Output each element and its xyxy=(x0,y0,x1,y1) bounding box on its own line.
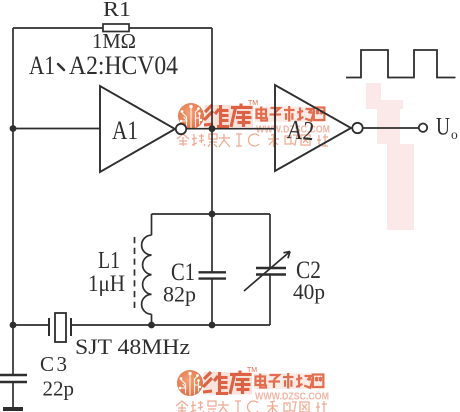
ground xyxy=(3,407,23,411)
wire C3 to ground xyxy=(12,382,14,407)
svg-text:1MΩ: 1MΩ xyxy=(92,29,136,53)
pink watermark band upper xyxy=(366,83,381,100)
svg-text:A1: A1 xyxy=(29,51,55,80)
label Uo xyxy=(436,114,458,143)
wire top rail xyxy=(13,27,212,29)
crystal SJT 48MHz xyxy=(13,313,71,342)
node junction right rail and A1 output xyxy=(209,125,216,132)
wire A1 input xyxy=(13,128,100,130)
svg-text:82p: 82p xyxy=(163,282,196,307)
terminal Uo xyxy=(419,124,427,132)
pink watermark band lower xyxy=(387,144,414,230)
capacitor C2 variable xyxy=(244,214,290,325)
watermark bottom xyxy=(176,367,329,412)
pink watermark band middle xyxy=(377,109,400,144)
resistor R1 xyxy=(103,24,129,32)
inverter gate A2 (HCV04) xyxy=(275,85,363,171)
wire right rail vertical xyxy=(211,28,213,325)
svg-text:1μH: 1μH xyxy=(88,271,125,296)
pink watermark band upper foot xyxy=(366,100,403,109)
label A1 A2 HCV04 xyxy=(29,51,178,80)
svg-text:40p: 40p xyxy=(293,279,325,304)
wire left rail xyxy=(12,28,14,375)
svg-text:22p: 22p xyxy=(43,377,75,401)
svg-text:A2: A2 xyxy=(286,114,316,146)
node junction bottom C1 xyxy=(209,322,216,329)
inverter gate A1 (HCV04) xyxy=(100,86,186,172)
wire tank top rail xyxy=(152,213,271,215)
svg-text:SJT 48MHz: SJT 48MHz xyxy=(75,334,190,359)
svg-text:U: U xyxy=(436,114,450,141)
svg-text:o: o xyxy=(451,127,458,142)
node junction bottom left wire xyxy=(10,322,17,329)
wire A1 output to A2 input xyxy=(186,128,275,130)
svg-text:C3: C3 xyxy=(40,352,67,376)
svg-text:R1: R1 xyxy=(103,0,131,21)
wire tank bottom rail xyxy=(72,324,271,326)
inductor L1 core dashed xyxy=(134,237,136,309)
node junction bottom L1 xyxy=(148,322,155,329)
watermark center xyxy=(177,100,330,147)
square wave symbol xyxy=(346,50,456,78)
wire A2 output xyxy=(363,127,419,129)
node junction tank top xyxy=(209,211,216,218)
capacitor C3 xyxy=(0,375,27,382)
svg-text:A2:HCV04: A2:HCV04 xyxy=(69,51,178,80)
inductor L1 xyxy=(142,214,152,325)
node junction left A1 input xyxy=(10,125,17,132)
capacitor C1 xyxy=(199,272,227,278)
svg-text:A1: A1 xyxy=(112,116,138,145)
